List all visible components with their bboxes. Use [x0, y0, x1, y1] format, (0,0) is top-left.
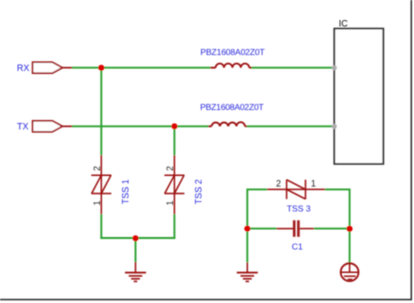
wire below TSS2: [173, 214, 175, 239]
earth ground symbol (circle, right): [341, 263, 359, 281]
wire to ground from junction: [135, 238, 137, 262]
TSS 1 surge suppressor: [91, 155, 111, 214]
svg-text:1: 1: [311, 178, 316, 188]
svg-text:PBZ1608A02Z0T: PBZ1608A02Z0T: [200, 47, 265, 57]
svg-text:TSS 1: TSS 1: [121, 179, 131, 204]
wire vertical from RX junction to TSS1: [100, 68, 102, 156]
svg-text:2: 2: [276, 178, 281, 188]
inductor L1 (RX row): [210, 63, 251, 67]
svg-text:TSS 2: TSS 2: [194, 179, 204, 204]
wire TX horizontal (net TX): [72, 125, 209, 127]
capacitor C1: [277, 220, 314, 237]
TSS 3 surge suppressor (horizontal): [267, 180, 325, 199]
svg-text:PBZ1608A02Z0T: PBZ1608A02Z0T: [200, 102, 264, 112]
wire below TSS1: [100, 214, 102, 239]
IC U1 box: [334, 29, 383, 164]
svg-text:RX: RX: [17, 63, 30, 73]
port RX connector: [33, 62, 63, 73]
junction dot RX: [98, 65, 104, 71]
svg-text:TSS 3: TSS 3: [287, 203, 311, 213]
junction dot C1 left: [244, 226, 250, 232]
IC pin dot RX: [332, 65, 337, 70]
port TX connector: [33, 121, 63, 132]
ground symbol mid (under TSS1/TSS2): [125, 262, 146, 281]
svg-text:2: 2: [92, 166, 102, 171]
svg-text:IC: IC: [339, 19, 349, 29]
svg-text:1: 1: [92, 200, 102, 205]
wire left vertical of bottom-right loop: [246, 189, 248, 263]
svg-text:1: 1: [165, 200, 175, 205]
wire C1 row right: [314, 228, 350, 230]
ground symbol left (under C1 left): [237, 262, 258, 281]
window right border: [410, 0, 412, 300]
svg-text:TX: TX: [17, 122, 29, 132]
wire horizontal TSS1-TSS2 bottom: [100, 237, 175, 239]
wire right vertical of bottom-right loop: [349, 189, 351, 264]
TSS 2 surge suppressor: [164, 155, 184, 214]
window bottom border: [0, 299, 412, 301]
junction dot ground mid: [133, 235, 139, 241]
IC pin dot TX: [332, 124, 337, 129]
svg-text:C1: C1: [292, 241, 303, 251]
svg-text:2: 2: [165, 166, 175, 171]
wire vertical from TX junction to TSS2: [173, 126, 175, 155]
wire C1 row left: [247, 228, 276, 230]
junction dot C1 right: [347, 226, 353, 232]
inductor L2 (TX row): [208, 122, 246, 126]
wire RX horizontal (net RX): [72, 67, 211, 69]
junction dot TX: [171, 123, 177, 129]
wire bottom-right loop top: [247, 188, 267, 190]
